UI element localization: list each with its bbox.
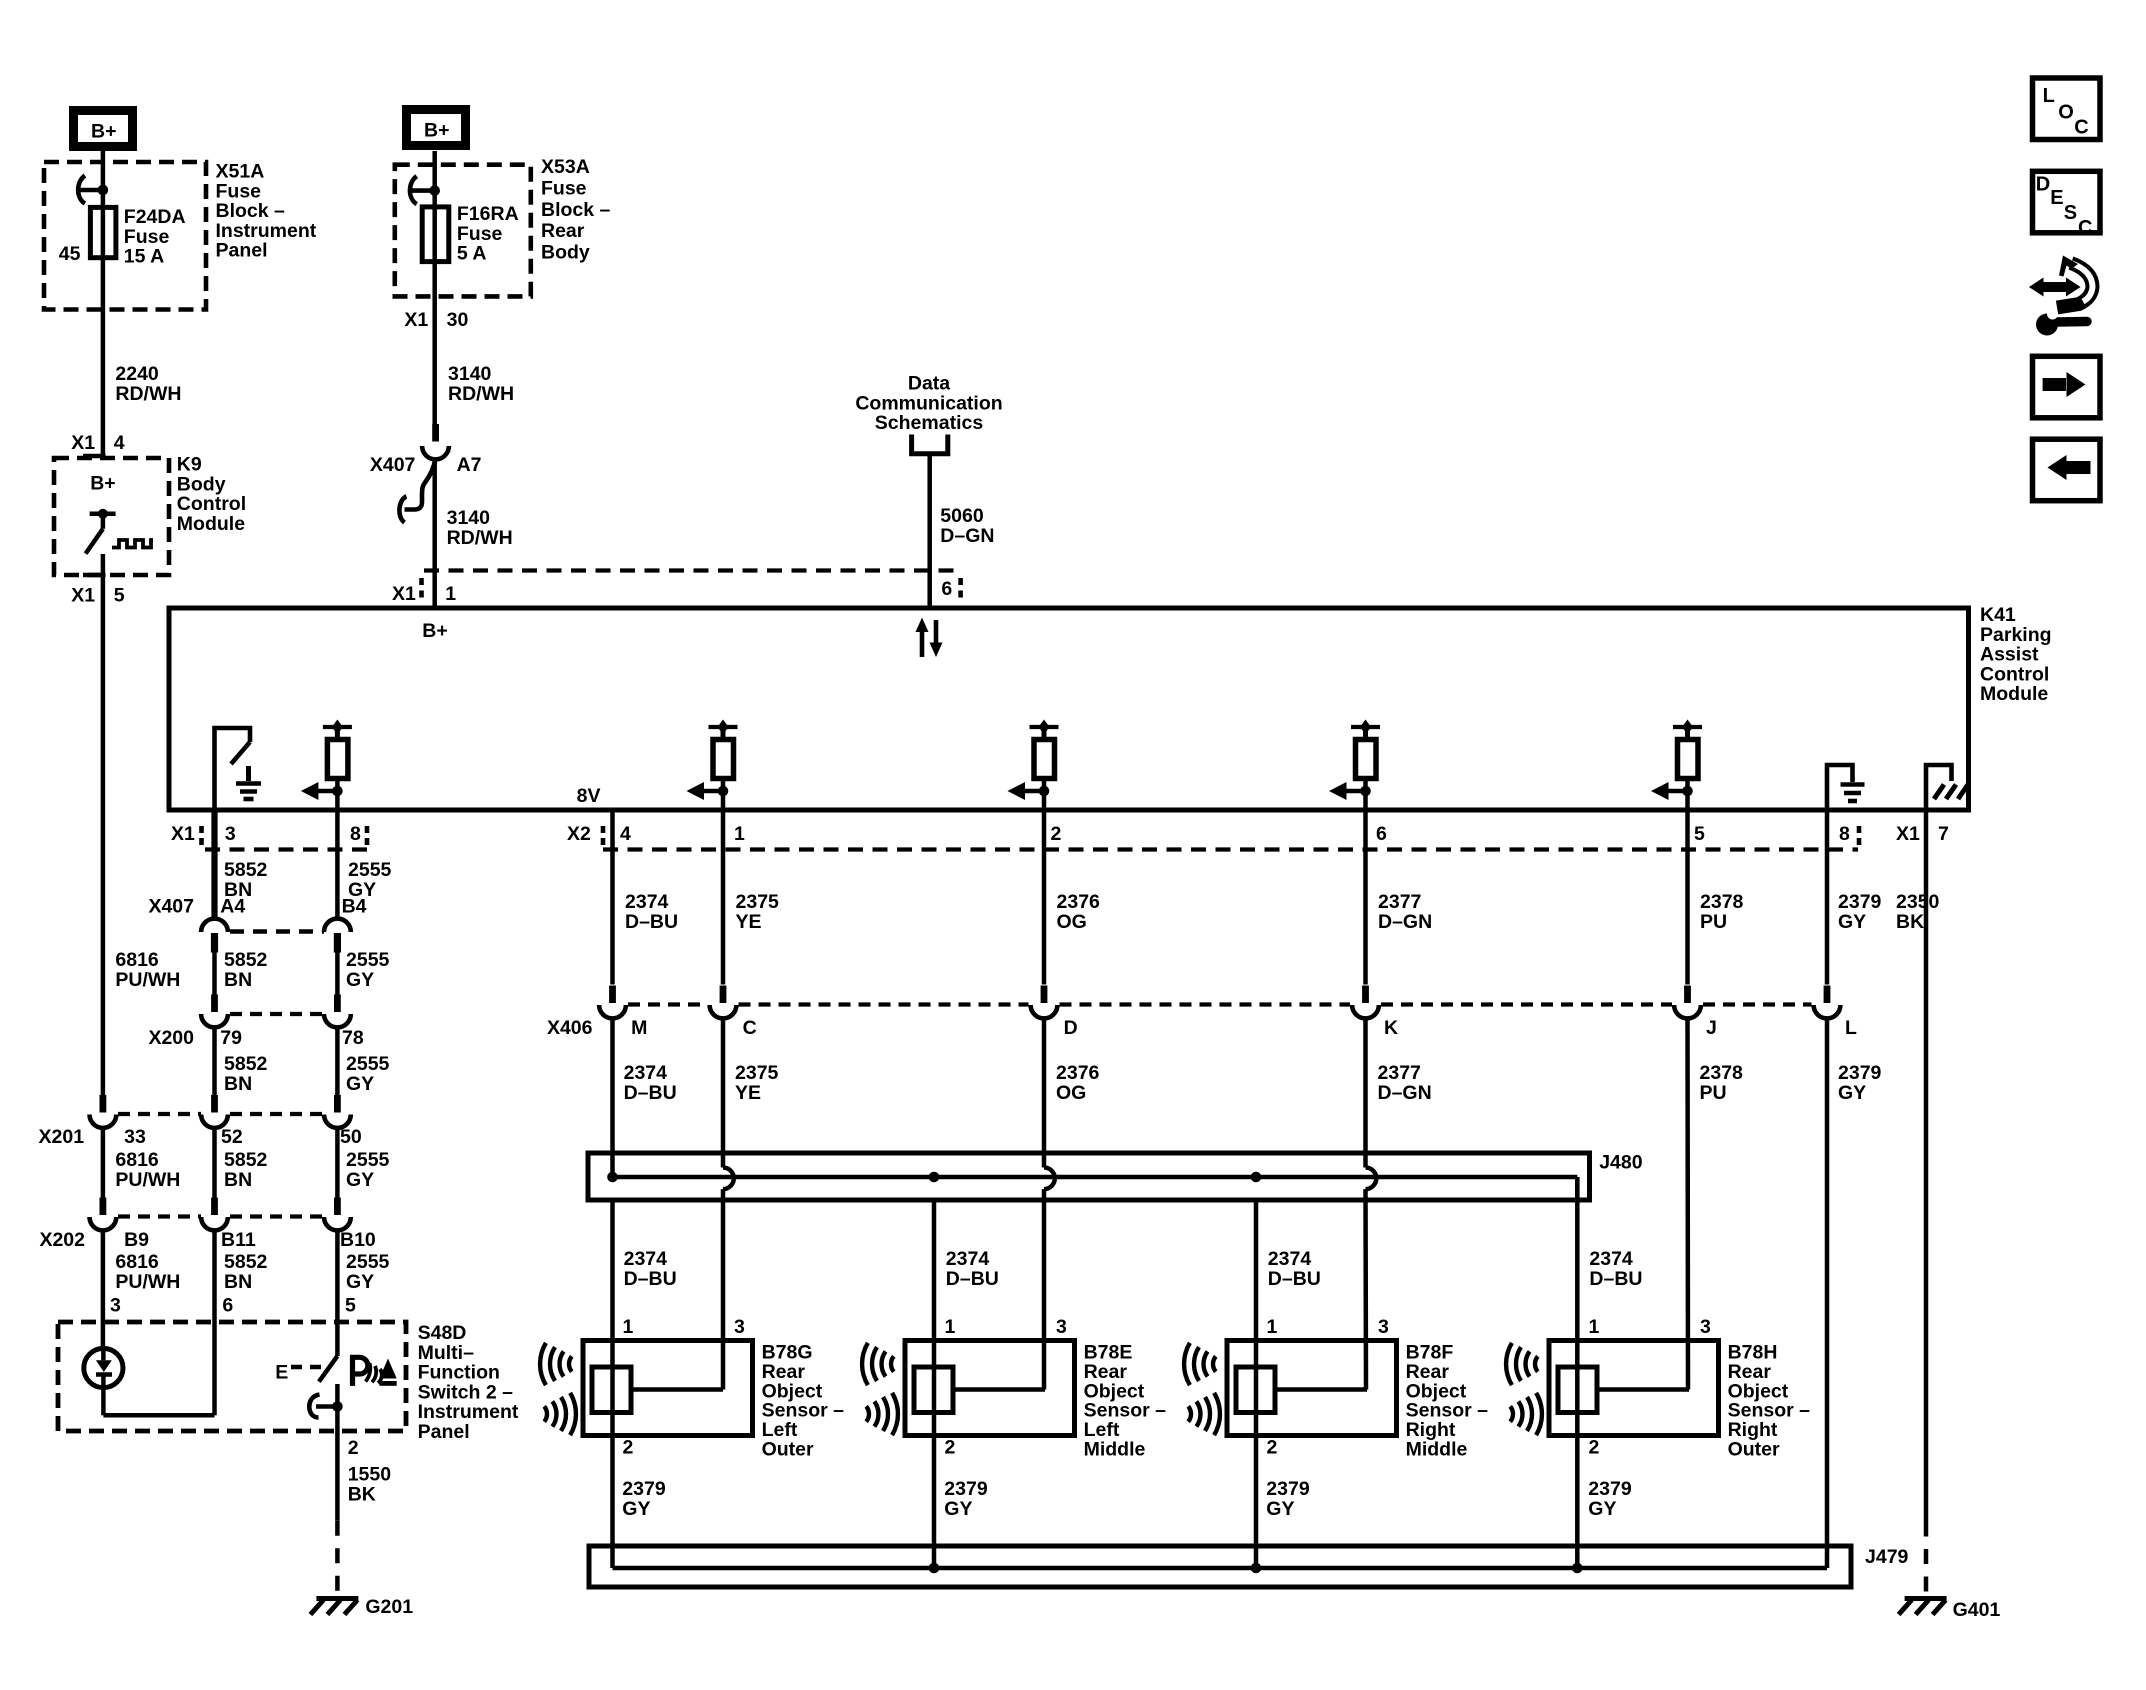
- svg-text:1: 1: [1589, 1316, 1600, 1338]
- wire label 2377 D-GN (upper): [1378, 891, 1432, 933]
- svg-text:OG: OG: [1057, 911, 1087, 933]
- wire label 2374 D-BU (sensor 4): [1589, 1248, 1642, 1290]
- svg-text:X1: X1: [171, 823, 195, 845]
- svg-text:2374: 2374: [624, 1062, 668, 1084]
- output driver resistor (pin X2-1): [687, 720, 738, 811]
- svg-text:GY: GY: [346, 969, 374, 991]
- svg-text:B9: B9: [124, 1229, 149, 1251]
- svg-text:2377: 2377: [1378, 891, 1421, 913]
- pin labels X2 4 1 2 6 5 8 X1 7 (K41 bottom): [567, 823, 1949, 845]
- svg-text:1: 1: [1267, 1316, 1278, 1338]
- svg-text:6: 6: [222, 1295, 233, 1317]
- svg-text:2: 2: [348, 1437, 359, 1459]
- svg-text:YE: YE: [736, 911, 762, 933]
- svg-text:Fuse: Fuse: [541, 177, 587, 199]
- fuse block X51A dashed outline: [44, 162, 206, 310]
- svg-text:2378: 2378: [1700, 1062, 1744, 1084]
- inline connector X201 pin 52: [201, 1095, 228, 1128]
- labels X407 / A7: [370, 454, 482, 476]
- label J479: [1865, 1546, 1909, 1568]
- svg-text:Multi–: Multi–: [418, 1342, 474, 1364]
- svg-text:F24DA: F24DA: [124, 206, 186, 228]
- wire label 2379 GY (sensor 4): [1588, 1478, 1632, 1520]
- parking assist control module K41 box outline: [169, 608, 1969, 810]
- svg-text:BN: BN: [224, 1271, 252, 1293]
- wire 2555 GY (X201-X202): [335, 1129, 340, 1198]
- wire 2240 RD/WH (B+ fuse 45 output to BCM X1-4): [101, 258, 106, 456]
- svg-text:GY: GY: [1838, 1082, 1866, 1104]
- svg-text:GY: GY: [1266, 1498, 1294, 1520]
- wire label 2375 YE (mid): [735, 1062, 779, 1104]
- pin labels 1 3 2 (B78H): [1589, 1316, 1712, 1459]
- svg-text:Assist: Assist: [1980, 644, 2039, 666]
- svg-text:2374: 2374: [1589, 1248, 1633, 1270]
- svg-text:Function: Function: [418, 1362, 500, 1384]
- svg-text:Switch 2 –: Switch 2 –: [418, 1381, 514, 1403]
- svg-text:2376: 2376: [1057, 891, 1101, 913]
- pin label X1 30 (X53A): [404, 309, 468, 331]
- svg-text:3: 3: [734, 1316, 745, 1338]
- wire label 2376 OG (upper): [1057, 891, 1101, 933]
- wire 5852 BN (X202 to S48D pin 6): [212, 1232, 217, 1416]
- svg-text:X1: X1: [392, 583, 416, 605]
- svg-text:2555: 2555: [346, 1251, 390, 1273]
- svg-text:6816: 6816: [115, 949, 159, 971]
- svg-text:7: 7: [1938, 823, 1949, 845]
- label S48D Multi-Function Switch 2 - Instrument Panel: [418, 1322, 519, 1443]
- connector X201 dashed line: [118, 1112, 324, 1116]
- svg-text:YE: YE: [735, 1082, 761, 1104]
- svg-text:3: 3: [1056, 1316, 1067, 1338]
- svg-text:K9: K9: [177, 454, 202, 476]
- serial data bidirectional arrows inside K41: [916, 618, 943, 658]
- svg-text:Middle: Middle: [1084, 1439, 1146, 1461]
- wire label 2374 D-BU (sensor 1): [624, 1248, 677, 1290]
- svg-text:L: L: [1845, 1017, 1857, 1039]
- svg-text:J479: J479: [1865, 1546, 1909, 1568]
- power symbol B+ (battery positive voltage, feed 2): [407, 110, 466, 146]
- svg-text:D: D: [1064, 1017, 1078, 1039]
- label G401: [1953, 1599, 2001, 1621]
- fuse F16RA: [422, 207, 449, 262]
- wire label 5852 BN (row2): [224, 949, 268, 991]
- internal chassis ground (pin X1-7): [1926, 765, 1968, 810]
- wire label 2374 D-BU (sensor 3): [1268, 1248, 1321, 1290]
- svg-text:X406: X406: [547, 1017, 593, 1039]
- svg-text:X53A: X53A: [541, 156, 590, 178]
- wire 6816 PU/WH (X202 to S48D pin 3): [101, 1232, 106, 1349]
- svg-text:D–BU: D–BU: [624, 1268, 677, 1290]
- svg-text:X1: X1: [71, 432, 95, 454]
- connector X1 dashed line (K41 top): [422, 571, 961, 603]
- svg-text:2: 2: [1589, 1437, 1600, 1459]
- svg-text:X1: X1: [1896, 823, 1920, 845]
- wire 3140 RD/WH (X407 to K41 X1-1): [432, 459, 437, 608]
- inline connector X406 pin L: [1814, 986, 1841, 1019]
- svg-text:GY: GY: [346, 1073, 374, 1095]
- labels X201 33 52 50: [39, 1126, 362, 1148]
- rear object sensor B78H box: [1549, 1341, 1719, 1436]
- svg-text:2379: 2379: [1588, 1478, 1632, 1500]
- labels X202 B9 B11 B10: [39, 1229, 375, 1251]
- wire label 2350 BK: [1896, 891, 1940, 933]
- fuse block bus tap hook (X51A): [78, 176, 108, 204]
- fuse block bus tap hook (X53A): [410, 176, 440, 204]
- svg-text:X407: X407: [148, 896, 194, 918]
- inline connector X200 pin 79: [201, 995, 228, 1028]
- inline connector X202 pin B9: [90, 1198, 117, 1231]
- svg-text:5852: 5852: [224, 1053, 268, 1075]
- svg-text:PU: PU: [1700, 1082, 1727, 1104]
- svg-text:5060: 5060: [940, 505, 984, 527]
- inline connector X201 pin 50: [324, 1095, 351, 1128]
- icon box back arrow: [2033, 439, 2101, 501]
- svg-text:8V: 8V: [577, 785, 601, 807]
- wire 2379 GY (X406 L to splice J479): [1825, 1020, 1830, 1569]
- svg-text:G401: G401: [1953, 1599, 2001, 1621]
- svg-text:D–GN: D–GN: [1378, 911, 1432, 933]
- wire 5852 BN (A4 to X200): [212, 951, 217, 995]
- output driver resistor (pin X2-5): [1651, 720, 1702, 811]
- off-page reference: Data Communication Schematics: [855, 373, 1002, 454]
- svg-text:1: 1: [945, 1316, 956, 1338]
- svg-text:K: K: [1384, 1017, 1398, 1039]
- node B+ inside K9: [90, 473, 115, 495]
- wire 2350 BK (K41 X1-7 to G401): [1924, 810, 1929, 1596]
- svg-text:2: 2: [623, 1437, 634, 1459]
- svg-text:O: O: [2058, 102, 2074, 124]
- inline connector X202 pin B10: [324, 1198, 351, 1231]
- connector X407 dashed line: [230, 929, 324, 934]
- wire 6816 PU/WH (X201-X202): [101, 1129, 106, 1198]
- svg-text:GY: GY: [1588, 1498, 1616, 1520]
- svg-text:D: D: [2036, 174, 2050, 196]
- inline connector X406 pin D: [1031, 986, 1058, 1019]
- svg-text:Outer: Outer: [762, 1439, 814, 1461]
- svg-text:Data: Data: [908, 373, 950, 395]
- splice J479 bus with junctions: [613, 1563, 1828, 1574]
- svg-text:5: 5: [1694, 823, 1705, 845]
- svg-text:2374: 2374: [1268, 1248, 1312, 1270]
- connector X406 dashed line: [628, 1002, 1812, 1006]
- svg-text:F16RA: F16RA: [457, 203, 519, 225]
- wire 2378 PU (K41 to X406): [1685, 810, 1690, 985]
- svg-text:G201: G201: [365, 1596, 413, 1618]
- output driver resistor (pin X2-2): [1008, 720, 1059, 811]
- svg-text:OG: OG: [1056, 1082, 1086, 1104]
- svg-text:RD/WH: RD/WH: [447, 527, 513, 549]
- wire label 2377 D-GN (mid): [1378, 1062, 1432, 1104]
- pin label X1 4 (BCM): [71, 432, 125, 456]
- svg-text:Panel: Panel: [216, 240, 268, 262]
- splice pack J480 outline: [588, 1153, 1590, 1200]
- svg-text:D–BU: D–BU: [946, 1268, 999, 1290]
- svg-text:33: 33: [124, 1126, 146, 1148]
- ground G401: [1899, 1599, 1947, 1615]
- svg-text:5852: 5852: [224, 859, 268, 881]
- wire 2379 GY (K41 X1-8 to X406 L): [1825, 810, 1830, 985]
- output driver resistor (pin X2-6): [1329, 720, 1380, 811]
- icon box forward arrow: [2033, 356, 2101, 418]
- wire label 2240 RD/WH: [115, 363, 181, 405]
- svg-text:3140: 3140: [447, 507, 491, 529]
- wire 6816 PU/WH (BCM X1-5 to X201): [101, 577, 106, 1096]
- svg-text:2374: 2374: [624, 1248, 668, 1270]
- svg-text:B11: B11: [221, 1229, 256, 1251]
- svg-text:1550: 1550: [348, 1464, 392, 1486]
- svg-text:15 A: 15 A: [124, 246, 164, 268]
- svg-text:45: 45: [59, 243, 81, 265]
- labels X407 A4 B4: [148, 896, 366, 918]
- indicator LED inside S48D: [84, 1348, 123, 1387]
- labels X406 M C D K J L: [547, 1017, 1857, 1039]
- wire 2555 GY (X202 to S48D pin 5): [335, 1232, 340, 1323]
- svg-text:GY: GY: [1838, 911, 1866, 933]
- label K9 Body Control Module: [177, 454, 246, 535]
- rear object sensor B78E box: [905, 1341, 1075, 1436]
- svg-text:2378: 2378: [1700, 891, 1744, 913]
- svg-text:BN: BN: [224, 969, 252, 991]
- svg-text:5852: 5852: [224, 1149, 268, 1171]
- svg-text:5 A: 5 A: [457, 243, 487, 265]
- svg-text:BN: BN: [224, 1073, 252, 1095]
- svg-text:B10: B10: [340, 1229, 376, 1251]
- svg-text:D–BU: D–BU: [625, 911, 678, 933]
- wire label 5060 D-GN: [940, 505, 994, 547]
- wire 2376 OG (X406 D to sensor B78E pin 3): [1044, 1020, 1055, 1390]
- inline connector X407 pin A7: [422, 424, 449, 459]
- wire 5852 BN (X200 to X201): [212, 1028, 217, 1096]
- svg-text:3: 3: [110, 1295, 121, 1317]
- wire label 2374 D-BU (sensor 2): [946, 1248, 999, 1290]
- icon repair instructions (turn arrow, double arrow and wrench): [2029, 256, 2093, 336]
- svg-text:6: 6: [1376, 823, 1387, 845]
- svg-text:Communication: Communication: [855, 392, 1002, 414]
- rear object sensor B78G box: [583, 1341, 753, 1436]
- svg-text:Control: Control: [1980, 663, 2049, 685]
- node B+ inside K41: [422, 620, 447, 642]
- inline connector X406 pin K: [1352, 986, 1379, 1019]
- pin labels X1 1 and 6 (K41 top): [392, 578, 952, 605]
- svg-text:2379: 2379: [944, 1478, 988, 1500]
- wire label 6816 PU/WH: [115, 949, 180, 991]
- label B78E Rear Object Sensor: [1084, 1342, 1167, 1461]
- svg-text:4: 4: [620, 823, 631, 845]
- wire label 2555 GY (row5) and pin 5: [345, 1251, 390, 1317]
- sonar waves icon (B78F): [1184, 1343, 1220, 1435]
- wire 2374 D-BU (J480 to sensor 4 pin 1): [1575, 1200, 1580, 1568]
- svg-text:2555: 2555: [348, 859, 392, 881]
- svg-text:Control: Control: [177, 493, 246, 515]
- wire label 2379 GY (sensor 1): [622, 1478, 666, 1520]
- wire 2374 D-BU (X406 M to J480): [610, 1020, 615, 1178]
- pin labels X1 3 8 (K41 bottom left): [171, 823, 361, 845]
- wire from K9 switch to X1-5: [101, 554, 106, 577]
- svg-text:5: 5: [114, 585, 125, 607]
- inline connector X407 pin A4: [201, 919, 228, 953]
- label B78H Rear Object Sensor: [1728, 1342, 1811, 1461]
- pin labels 1 3 2 (B78G): [623, 1316, 746, 1459]
- svg-text:C: C: [743, 1017, 757, 1039]
- svg-text:2375: 2375: [736, 891, 780, 913]
- svg-text:3140: 3140: [448, 363, 492, 385]
- svg-text:X200: X200: [148, 1027, 194, 1049]
- switch lower contact with hook: [309, 1384, 342, 1431]
- svg-text:Middle: Middle: [1406, 1439, 1468, 1461]
- ground G201: [310, 1599, 358, 1615]
- svg-text:RD/WH: RD/WH: [115, 383, 181, 405]
- connector X200 dashed line: [230, 1012, 324, 1016]
- svg-text:5852: 5852: [224, 949, 268, 971]
- wire 2374 D-BU (J480 to sensor 2 pin 1): [932, 1200, 937, 1568]
- wire label 2376 OG (mid): [1056, 1062, 1100, 1104]
- svg-text:BK: BK: [1896, 911, 1924, 933]
- pin labels 1 3 2 (B78E): [945, 1316, 1068, 1459]
- svg-text:3: 3: [1378, 1316, 1389, 1338]
- svg-text:4: 4: [114, 432, 125, 454]
- wire label 5852 BN (row1): [224, 859, 268, 901]
- svg-text:B+: B+: [424, 120, 449, 142]
- svg-text:2374: 2374: [625, 891, 669, 913]
- rear object sensor B78F box: [1227, 1341, 1397, 1436]
- inline connector X407 pin B4: [324, 919, 351, 953]
- svg-text:1: 1: [623, 1316, 634, 1338]
- wire B+ to fuse block X53A: [432, 151, 437, 207]
- svg-text:79: 79: [220, 1027, 242, 1049]
- wire 2377 D-GN (K41 to X406): [1363, 810, 1368, 985]
- connector X1 dashed line (K41 bottom left): [202, 826, 369, 850]
- svg-text:Instrument: Instrument: [216, 220, 317, 242]
- svg-text:2377: 2377: [1378, 1062, 1421, 1084]
- svg-text:2379: 2379: [1838, 891, 1882, 913]
- svg-text:5: 5: [345, 1295, 356, 1317]
- svg-text:2379: 2379: [1266, 1478, 1310, 1500]
- wire label 2379 GY (mid): [1838, 1062, 1882, 1104]
- svg-text:RD/WH: RD/WH: [448, 383, 514, 405]
- svg-text:E: E: [275, 1362, 288, 1384]
- svg-text:S: S: [2064, 202, 2077, 224]
- svg-text:1: 1: [734, 823, 745, 845]
- inline connector X406 pin M: [599, 986, 626, 1019]
- label F24DA Fuse 15 A: [124, 206, 186, 268]
- svg-text:GY: GY: [622, 1498, 650, 1520]
- svg-text:6816: 6816: [115, 1149, 159, 1171]
- wire 5060 D-GN (serial data): [927, 454, 932, 608]
- driver coil zigzag inside K9: [112, 540, 153, 548]
- svg-text:2374: 2374: [946, 1248, 990, 1270]
- svg-text:Instrument: Instrument: [418, 1401, 519, 1423]
- connector X202 dashed line: [118, 1214, 324, 1218]
- svg-text:B+: B+: [91, 121, 116, 143]
- svg-text:C: C: [2078, 217, 2092, 239]
- ground switch inside K41 (pin X1-3): [215, 728, 262, 810]
- svg-text:Fuse: Fuse: [216, 180, 262, 202]
- inline connector X200 pin 78: [324, 995, 351, 1028]
- svg-text:Rear: Rear: [541, 220, 585, 242]
- svg-text:D–BU: D–BU: [1268, 1268, 1321, 1290]
- svg-text:L: L: [2043, 85, 2055, 107]
- wire 2555 GY (B4 to X200): [335, 951, 340, 995]
- svg-text:2: 2: [945, 1437, 956, 1459]
- svg-text:J480: J480: [1599, 1152, 1643, 1174]
- splice pack J479 outline: [589, 1546, 1851, 1587]
- wire label 5852 BN (row5) and pin 6: [222, 1251, 267, 1317]
- wire 2555 GY (X200 to X201): [335, 1028, 340, 1096]
- wire B+ to fuse block X51A: [101, 151, 106, 207]
- wire label 2378 PU (upper): [1700, 891, 1744, 933]
- sonar waves icon (B78E): [862, 1343, 898, 1435]
- icon box DESC: [2033, 171, 2101, 239]
- inline connector X406 pin C: [710, 986, 737, 1019]
- fuse position label 45: [59, 243, 81, 265]
- wire label 2555 GY (row3): [346, 1053, 390, 1095]
- svg-text:Schematics: Schematics: [875, 412, 984, 434]
- svg-text:BK: BK: [348, 1483, 376, 1505]
- svg-text:Block –: Block –: [541, 199, 611, 221]
- svg-text:5852: 5852: [224, 1251, 268, 1273]
- labels X200 79 78: [148, 1027, 363, 1049]
- svg-text:52: 52: [221, 1126, 243, 1148]
- svg-text:B+: B+: [90, 473, 115, 495]
- wire label 6816 PU/WH (row5) and pin 3: [110, 1251, 180, 1317]
- sonar waves icon (B78G): [540, 1343, 576, 1435]
- svg-text:Outer: Outer: [1728, 1439, 1780, 1461]
- svg-text:Fuse: Fuse: [457, 223, 503, 245]
- label X53A Fuse Block - Rear Body: [541, 156, 611, 264]
- svg-text:M: M: [631, 1017, 647, 1039]
- switch (high side driver) inside K9: [86, 509, 116, 554]
- splice J480 bus with branch junctions: [607, 1172, 1577, 1200]
- svg-text:B+: B+: [422, 620, 447, 642]
- wire 2376 OG (K41 to X406): [1042, 810, 1047, 985]
- svg-text:Fuse: Fuse: [124, 226, 170, 248]
- svg-text:2376: 2376: [1056, 1062, 1100, 1084]
- svg-text:D–BU: D–BU: [1589, 1268, 1642, 1290]
- svg-text:6: 6: [941, 578, 952, 600]
- wire 5852 BN (K41 X1-3 to X407 A4): [211, 810, 217, 918]
- wire 2555 GY (K41 X1-8 to X407 B4): [335, 810, 340, 918]
- connector pigtail hook (X407 A7): [399, 459, 435, 523]
- svg-text:A7: A7: [457, 454, 482, 476]
- wire label 2374 D-BU (upper): [625, 891, 678, 933]
- inline connector X201 pin 33: [90, 1095, 117, 1128]
- svg-text:GY: GY: [944, 1498, 972, 1520]
- wire 3140 RD/WH (fuse F16RA to X407): [432, 262, 437, 425]
- svg-text:K41: K41: [1980, 604, 2016, 626]
- svg-text:PU/WH: PU/WH: [115, 1271, 180, 1293]
- svg-text:78: 78: [342, 1027, 364, 1049]
- output driver resistor (pin X1-8): [301, 720, 352, 811]
- wire label 5852 BN (row3): [224, 1053, 268, 1095]
- icon box LOC: [2033, 78, 2101, 140]
- fuse F24DA: [90, 207, 116, 257]
- svg-text:Module: Module: [177, 513, 245, 535]
- svg-text:3: 3: [225, 823, 236, 845]
- svg-text:GY: GY: [346, 1271, 374, 1293]
- multi-function switch S48D dashed outline: [58, 1322, 406, 1431]
- svg-text:X201: X201: [39, 1126, 85, 1148]
- svg-text:X2: X2: [567, 823, 591, 845]
- wire label 2555 GY (row1): [348, 859, 392, 901]
- body control module K9 dashed outline: [54, 458, 169, 575]
- svg-text:2379: 2379: [1838, 1062, 1882, 1084]
- switch blade inside S48D (park assist on/off): [319, 1322, 338, 1382]
- label B78G Rear Object Sensor: [762, 1342, 845, 1461]
- svg-text:PU/WH: PU/WH: [115, 1169, 180, 1191]
- wire 2378 PU (X406 J to sensor B78H pin 3): [1685, 1020, 1690, 1390]
- svg-text:D–GN: D–GN: [940, 525, 994, 547]
- svg-text:2: 2: [1051, 823, 1062, 845]
